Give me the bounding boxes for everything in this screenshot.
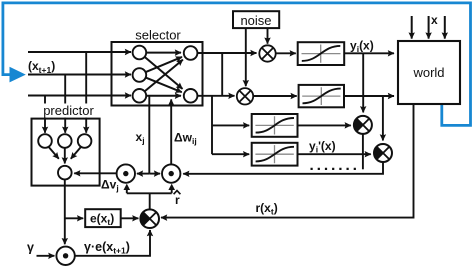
wire L2 to R2 xyxy=(146,78,182,93)
wire gamma into multiplier xyxy=(37,255,55,257)
svg-text:e(xt): e(xt) xyxy=(90,212,114,228)
node error multiplier half filled xyxy=(140,209,159,228)
wire dw_ij up into selector xyxy=(170,99,172,164)
svg-text:yi'(x): yi'(x) xyxy=(309,139,336,155)
wire e(x_t) to error multiplier xyxy=(121,217,139,219)
wire x_j from selector down xyxy=(148,96,150,174)
box predictor xyxy=(32,119,100,186)
svg-text:noise: noise xyxy=(240,13,271,28)
wire node1 output stub down to dots xyxy=(362,134,364,169)
wire to sigmoid box 3 xyxy=(212,124,249,126)
wire x_j split right into dw multiplier xyxy=(149,173,160,175)
wire multiplier2 to sigmoid2 xyxy=(253,95,297,97)
node label predictor xyxy=(39,104,98,118)
node predictor unit 2 xyxy=(58,134,72,148)
box world xyxy=(398,41,460,104)
box e(x_t) xyxy=(85,209,121,227)
wire world input arrow 2 xyxy=(428,16,430,39)
box selector xyxy=(112,42,203,106)
wire noise to multiplier 1 xyxy=(267,28,269,44)
wire input line A top xyxy=(28,51,131,53)
svg-text:selector: selector xyxy=(135,28,181,43)
wire rhat to both multipliers xyxy=(127,189,172,210)
node multiplier filled 1 xyxy=(354,116,372,134)
wire node2 output to weight-update multiplier xyxy=(183,162,383,174)
wire predictor output to e(x_t) box xyxy=(65,217,83,219)
wire world input arrow 3 xyxy=(444,16,446,39)
box sigmoid 1 xyxy=(298,42,345,65)
wire L1 to R2 xyxy=(145,57,183,89)
wire dv_j to predictor output unit xyxy=(74,172,116,174)
wire tap C to predictor input 1 xyxy=(44,96,46,133)
wire tap B to predictor input 2 xyxy=(64,75,66,133)
wire to sigmoid box 4 xyxy=(212,153,249,155)
node predictor output unit xyxy=(58,166,72,180)
wire sigmoid4 output to node2 xyxy=(298,153,371,155)
wire sigmoid3 output to node1 xyxy=(298,124,351,126)
box sigmoid 4 xyxy=(252,143,298,166)
node multiplier filled 2 xyxy=(374,144,392,162)
node multiplier circle-x 1 xyxy=(259,45,275,61)
node selector left unit 2 xyxy=(133,68,147,82)
wire multiplier1 to sigmoid1 xyxy=(276,52,296,54)
wire noise to multiplier 2 xyxy=(245,28,247,86)
wire dotted continuation xyxy=(311,168,357,170)
wire selector R1 output to noise multiplier xyxy=(197,52,256,54)
box sigmoid 2 xyxy=(299,85,344,107)
wire L2 to R1 xyxy=(146,57,182,72)
svg-text:yi(x): yi(x) xyxy=(350,39,374,55)
wire tap row2 to derivative node 2 xyxy=(382,96,384,141)
node predictor unit 3 xyxy=(78,134,92,148)
wire unit2 to output unit xyxy=(64,148,66,164)
wire tap y_i to derivative node 1 xyxy=(362,53,364,112)
box sigmoid 3 xyxy=(252,114,298,137)
wire L3 to R2 xyxy=(147,95,182,97)
node selector right unit 1 xyxy=(184,46,198,60)
svg-text:γ: γ xyxy=(27,241,34,255)
node rhat arrowhead left xyxy=(124,184,131,190)
svg-text:x: x xyxy=(431,13,438,27)
wire unit3 to output unit xyxy=(71,147,81,159)
wire input line C bottom xyxy=(28,95,131,97)
svg-text:predictor: predictor xyxy=(43,103,94,118)
wire tap A to predictor input 3 xyxy=(85,52,87,133)
wire world input arrow 1 xyxy=(411,16,413,39)
svg-text:r: r xyxy=(175,193,180,207)
box noise xyxy=(233,11,279,28)
node gamma multiplier dot circle xyxy=(56,247,74,265)
wire predictor output down xyxy=(64,179,66,244)
wire unit1 to output unit xyxy=(49,147,59,159)
node predictor unit 1 xyxy=(38,134,52,148)
wire sigmoid2 output to world xyxy=(344,95,394,97)
svg-text:r(xt): r(xt) xyxy=(256,201,278,217)
node dv multiplier dot circle xyxy=(117,164,135,182)
node selector right unit 2 xyxy=(184,89,198,103)
wire x_j split left into dv multiplier xyxy=(137,173,149,175)
svg-text:Δvj: Δvj xyxy=(101,178,119,194)
wire input line B middle xyxy=(28,74,131,76)
wire reward r(x_t) from world to error multiplier xyxy=(161,104,414,218)
node dw multiplier dot circle xyxy=(162,164,180,182)
wire sigmoid1 output to world xyxy=(344,52,394,54)
wire row1 tap down to row2 xyxy=(221,53,223,96)
node multiplier circle-x 2 xyxy=(237,88,253,104)
node rhat arrowhead right xyxy=(168,184,175,190)
wire L3 to R1 xyxy=(145,60,183,92)
node selector left unit 1 xyxy=(133,46,147,60)
wire gamma multiplier to error multiplier xyxy=(75,230,150,256)
node blue arrowhead xyxy=(10,67,26,83)
svg-text:world: world xyxy=(412,65,444,80)
wire feedback tap down to hidden sigmoids xyxy=(211,96,213,154)
wire blue feedback loop from world to input xyxy=(3,3,471,126)
wire L1 to R1 xyxy=(147,52,182,54)
wire selector R2 output to noise multiplier 2 xyxy=(197,95,234,97)
node selector left unit 3 xyxy=(133,89,147,103)
